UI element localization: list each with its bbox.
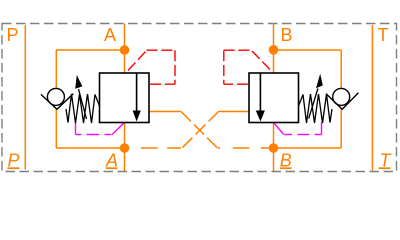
svg-text:B: B [280,25,292,45]
svg-text:A: A [104,25,116,45]
svg-text:T: T [378,25,389,45]
svg-text:P: P [6,25,18,45]
